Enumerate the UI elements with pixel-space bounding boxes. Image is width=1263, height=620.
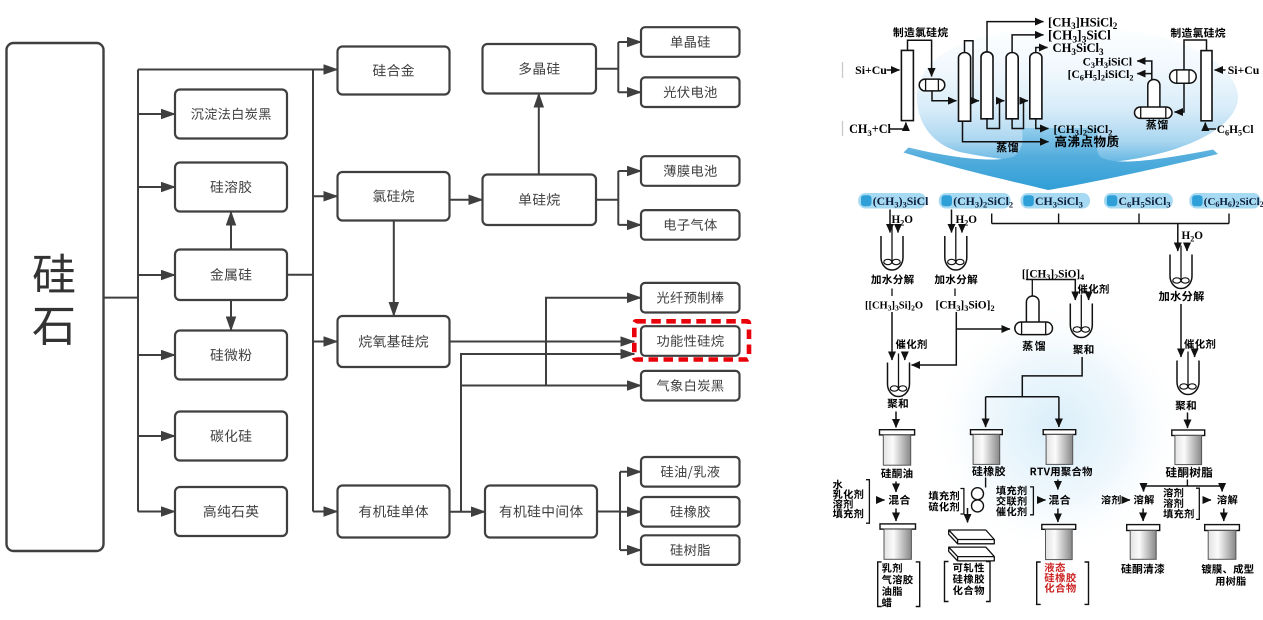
box 硅微粉 (175, 331, 287, 380)
label 混合 A (889, 495, 910, 505)
pipe reactor top to separator right (1184, 40, 1207, 70)
separator oval right (1170, 70, 1197, 83)
blue label bar (1021, 193, 1091, 209)
bracket left 液态 (1037, 562, 1041, 604)
arrow RTV to 混合 (1057, 480, 1059, 490)
soft blue glow background (929, 300, 1185, 556)
reactor vessel D1 加水分解 (1170, 246, 1192, 289)
label 硅酮油 (881, 468, 912, 478)
bracket left 可轧性 (945, 562, 949, 602)
pipe column1 bottoms to 高沸点物质 (963, 121, 1049, 142)
red dashed highlight around 功能性硅烷 (634, 321, 749, 359)
line 硅橡胶 to mill (985, 478, 987, 488)
input list 溶剂溶剂填充剂 (1163, 488, 1183, 498)
blue label bar (1104, 193, 1173, 209)
box 单硅烷 (483, 175, 597, 226)
label 溶解 right (1217, 495, 1237, 505)
tank 液态硅橡胶 (1042, 525, 1076, 560)
blue label bar (1189, 193, 1263, 209)
arrow into 硅橡胶 tank (985, 397, 987, 427)
box 硅石 (silica) (7, 43, 104, 551)
svg-text:C6H5Cl: C6H5Cl (1217, 124, 1254, 138)
box 功能性硅烷 (641, 326, 740, 356)
arrow split left (1143, 486, 1145, 492)
label 蒸馏 right (1146, 119, 1168, 129)
arrow B to still drum (956, 328, 1010, 330)
label 加水分解 D (1159, 291, 1204, 302)
svg-text:Si+Cu: Si+Cu (855, 63, 887, 77)
label 制造氯硅烷 right (1171, 28, 1226, 38)
label 硅酮树脂 (1166, 467, 1213, 478)
svg-text:[CH3]3SiO]2: [CH3]3SiO]2 (935, 299, 994, 313)
pipe column4 bottoms to [CH3]2SiCl2 (1036, 119, 1049, 129)
output list 乳剂气溶胶油脂蜡 (882, 563, 902, 573)
box 硅合金 (338, 47, 450, 95)
arrow to 气象白炭黑 (461, 385, 641, 387)
arrow into 烷氧基硅烷 (313, 341, 338, 343)
svg-text:CH3SiCl3: CH3SiCl3 (1053, 41, 1105, 57)
label 加水分解 A (871, 274, 914, 284)
dash B (954, 289, 956, 297)
arrow 混合 to tank A2 (895, 509, 897, 522)
label 催化剂 A (896, 339, 927, 349)
blue label bar (CH3)3SiCl (858, 193, 929, 209)
tank 硅酮油 (880, 430, 915, 465)
svg-text:H2O: H2O (956, 214, 978, 228)
tank 硅酮清漆 (1127, 525, 1160, 560)
arrow 单硅烷 to 多晶硅 (538, 94, 540, 175)
output list 液态硅橡胶化合物 (red) (1045, 562, 1066, 572)
arrow B to polymerizer A2 (912, 312, 957, 365)
still T-vessel right (1148, 79, 1160, 107)
box 硅树脂 (641, 535, 740, 565)
bracket 溶剂 group (1196, 488, 1199, 519)
tank 镀膜成型用树脂 (1205, 525, 1240, 560)
arrow into 硅溶胶 (138, 186, 175, 188)
reactor vessel A1 加水分解 (881, 227, 903, 270)
roll mill (972, 488, 984, 512)
wire 金属硅 to spine 2 (287, 274, 313, 276)
box 碳化硅 (175, 412, 287, 461)
arrow 烷氧基硅烷 to 功能性硅烷 (450, 341, 635, 343)
arrow into 硅油/乳液 (620, 471, 641, 473)
label 加水分解 B (935, 274, 978, 284)
arrow Si+Cu feed right (1215, 69, 1226, 71)
svg-text:CH3SiCl3: CH3SiCl3 (1035, 194, 1083, 210)
arrow 溶解 to tank (1142, 509, 1144, 522)
arrow [[CH3]2SiO]4 to polymerizer mid (1026, 280, 1075, 301)
reactor column right (Si+Cu) (1201, 51, 1212, 121)
arrow to 光纤预制棒 (546, 298, 641, 386)
arrow 硅酮油 to 混合 (895, 482, 897, 493)
arrow H2O col D (1186, 243, 1188, 251)
svg-text:[[CH3]3Si]2O: [[CH3]3Si]2O (865, 300, 923, 312)
box 金属硅 (175, 250, 287, 301)
tank RTV用聚合物 (1043, 430, 1076, 465)
arrow 催化剂 D (1194, 352, 1196, 358)
pipe column4 overhead to CH3SiCl3 (1036, 48, 1048, 53)
line label1 down (889, 210, 891, 233)
box 有机硅中间体 (485, 486, 597, 538)
box 电子气体 (641, 210, 740, 240)
wire polymerizer mid split (986, 357, 1083, 397)
arrow into 硅微粉 (138, 354, 175, 356)
box 硅油/乳液 (641, 457, 740, 487)
blue label bar (939, 193, 1013, 209)
label 聚和 D (1175, 400, 1195, 410)
pipe column2 bottoms to column3 (987, 101, 1004, 129)
bracket 硫化剂 (960, 489, 964, 515)
label 蒸馏 under columns (997, 142, 1019, 152)
box 高纯石英 (175, 487, 287, 536)
bracket A inputs (866, 480, 869, 524)
input list 水乳化剂溶剂填充剂 (833, 480, 843, 490)
arrow into 薄膜电池 (618, 170, 641, 172)
tank 硅酮树脂 (1172, 430, 1205, 465)
svg-text:C3H3iSiCl: C3H3iSiCl (1083, 56, 1132, 70)
arrow 金属硅 to 硅溶胶 (230, 212, 232, 250)
pipe column2 overhead to [CH3]HSiCl2 (987, 22, 1044, 53)
bracket RTV inputs (1030, 487, 1033, 515)
distillation column 1 (959, 52, 971, 121)
svg-text:H2O: H2O (1182, 230, 1204, 244)
reactor vessel mid 聚和 (1070, 295, 1092, 338)
box 光纤预制棒 (641, 283, 740, 313)
blue balloon background (917, 26, 1238, 163)
label 镀膜、成型 (1201, 564, 1253, 574)
box 沉淀法白炭黑 (175, 90, 287, 139)
arrow into 单晶硅 (618, 41, 641, 43)
arrow A to 硅酮油 tank (895, 412, 897, 428)
rubber slabs (949, 530, 995, 544)
arrow into 混合 RTV (1039, 499, 1046, 501)
box 多晶硅 (483, 44, 597, 94)
arrow mill to slabs (967, 508, 969, 523)
svg-text:(C6H6)2SiCl2: (C6H6)2SiCl2 (1204, 196, 1263, 209)
label 硅橡胶 tank (972, 466, 1005, 476)
svg-text:C6H5SiCl3: C6H5SiCl3 (1119, 194, 1171, 210)
wire silica to spine (104, 297, 137, 299)
label 催化剂 D (1184, 339, 1215, 349)
distillation column 2 (981, 52, 993, 119)
arrow still to [C6H5]2iSiCl2 (1137, 73, 1152, 75)
arrow H2O col B (961, 225, 963, 233)
arrow into 电子气体 (618, 224, 641, 226)
bracket right 液态 (1085, 562, 1089, 604)
bracket right 可轧性 (986, 562, 990, 602)
arrow still to C3H3iSiCl (1137, 61, 1152, 80)
box 有机硅单体 (338, 486, 450, 538)
label 混合 RTV (1049, 495, 1070, 505)
arrow spine top into 硅合金 (138, 69, 338, 71)
arrow into 高纯石英 (138, 511, 175, 513)
box 硅溶胶 (175, 163, 287, 212)
label RTV用聚合物 (1031, 466, 1093, 476)
faint edge marks left (842, 62, 844, 136)
arrow 催化剂 A (904, 353, 906, 361)
bracket right 乳剂 (916, 562, 920, 607)
arrow into 有机硅单体 (313, 511, 338, 513)
label 催化剂 middle (1078, 284, 1109, 294)
arrow into 金属硅 (138, 274, 175, 276)
arrow A to polymerizer (891, 312, 893, 360)
line label2 down (951, 210, 953, 233)
box 硅橡胶 (641, 497, 740, 527)
arrow 混合 to tank RTV2 (1057, 509, 1059, 523)
tank 硅橡胶 (971, 430, 1003, 465)
label 高沸点物质 (1055, 135, 1118, 147)
pipe separator to column 1 (932, 91, 957, 101)
svg-text:H2O: H2O (892, 214, 914, 228)
blue funnel arrow (904, 128, 1219, 190)
arrow D to polymerizer (1180, 304, 1182, 357)
svg-text:[C6H5]2iSiCl2: [C6H5]2iSiCl2 (1068, 69, 1134, 83)
arrow 有机硅单体 up to 功能性硅烷 (461, 354, 634, 512)
arrow C6H5Cl feed (1205, 123, 1216, 130)
arrow D to 硅酮树脂 tank (1187, 413, 1189, 429)
wire 多晶硅 split (596, 42, 618, 92)
box 气象白炭黑 (641, 371, 740, 401)
box 薄膜电池 (641, 156, 740, 186)
arrow 有机硅单体 to 有机硅中间体 (450, 511, 486, 513)
svg-text:(CH3)3SiCl: (CH3)3SiCl (873, 194, 929, 210)
arrow CH3+Cl feed (889, 123, 906, 130)
label 溶解 left (1134, 495, 1154, 505)
tank 乳剂 (880, 524, 916, 559)
arrow 催化剂 mid (1088, 296, 1090, 301)
arrow into RTV tank (1058, 397, 1060, 427)
wire 单硅烷 split (596, 171, 618, 225)
arrow into 硅橡胶 (620, 511, 641, 513)
reactor vessel D2 聚和 (1177, 352, 1199, 395)
bus labels 3-5 (992, 214, 1229, 224)
box 氯硅烷 (338, 172, 450, 221)
bracket left 乳剂 (878, 562, 882, 607)
arrow bus down to hydrolysis D (1177, 224, 1179, 252)
arrow into 碳化硅 (138, 435, 175, 437)
arrow into 氯硅烷 (313, 195, 338, 197)
arrow H2O col A (897, 225, 899, 233)
box 单晶硅 (641, 27, 740, 57)
pipe column1 overhead to column2 (965, 41, 980, 101)
pipe separator to still drum (1175, 83, 1185, 112)
svg-text:CH3+Cl: CH3+Cl (849, 122, 891, 138)
label 聚和 middle (1073, 344, 1093, 354)
arrow 金属硅 to 硅微粉 (230, 300, 232, 331)
output list 可轧性硅橡胶化合物 (953, 563, 984, 573)
label 聚和 A (887, 398, 907, 408)
arrow 溶剂 into 溶解 (1123, 499, 1131, 501)
dash A (891, 289, 893, 297)
wire spine vertical 2 (312, 70, 314, 512)
input list 填充剂硫化剂 (929, 491, 959, 501)
input list 填充剂交联剂催化剂 (996, 486, 1026, 496)
label 硅酮清漆 (1121, 564, 1164, 574)
arrow split right (1221, 486, 1223, 492)
arrow into 混合 A (877, 499, 885, 501)
still T-vessel middle 蒸馏 (1026, 296, 1039, 323)
label 溶剂 left (1101, 495, 1120, 504)
label 制造氯硅烷 left (893, 27, 948, 37)
arrow into 光伏电池 (618, 91, 641, 93)
distillation column 4 (1030, 52, 1042, 118)
arrow into 溶解 right (1204, 499, 1211, 501)
distillation column 3 (1006, 52, 1018, 118)
line still to [[CH3]2SiO]4 (1031, 280, 1033, 297)
wire spine vertical 1 (137, 70, 139, 512)
svg-text:Si+Cu: Si+Cu (1228, 63, 1260, 77)
arrow 氯硅烷 to 烷氧基硅烷 (393, 221, 395, 317)
arrow into 硅树脂 (620, 549, 641, 551)
reactor vessel A2 聚和 (888, 354, 910, 397)
arrow 氯硅烷 to 单硅烷 (450, 199, 483, 201)
separator oval left (919, 79, 945, 91)
arrow Si+Cu feed (887, 69, 900, 71)
box 光伏电池 (641, 77, 740, 107)
label 蒸馏 middle (1023, 341, 1046, 351)
arrow into 沉淀法白炭黑 (138, 113, 175, 115)
wire 硅酮树脂 split (1144, 480, 1223, 487)
pipe column3 bottoms to column4 (1012, 101, 1028, 129)
box 烷氧基硅烷 (338, 316, 450, 367)
reactor column left (Si+Cu) (901, 50, 913, 120)
reactor vessel B1 加水分解 (945, 227, 967, 270)
pipe column3 overhead to [CH3]3SiCl (1012, 35, 1043, 53)
label 用树脂 (1215, 576, 1245, 586)
wire 有机硅中间体 split (597, 472, 620, 550)
pipe reactor top to separator (908, 40, 932, 76)
arrow 溶解 right to tank (1223, 509, 1225, 522)
